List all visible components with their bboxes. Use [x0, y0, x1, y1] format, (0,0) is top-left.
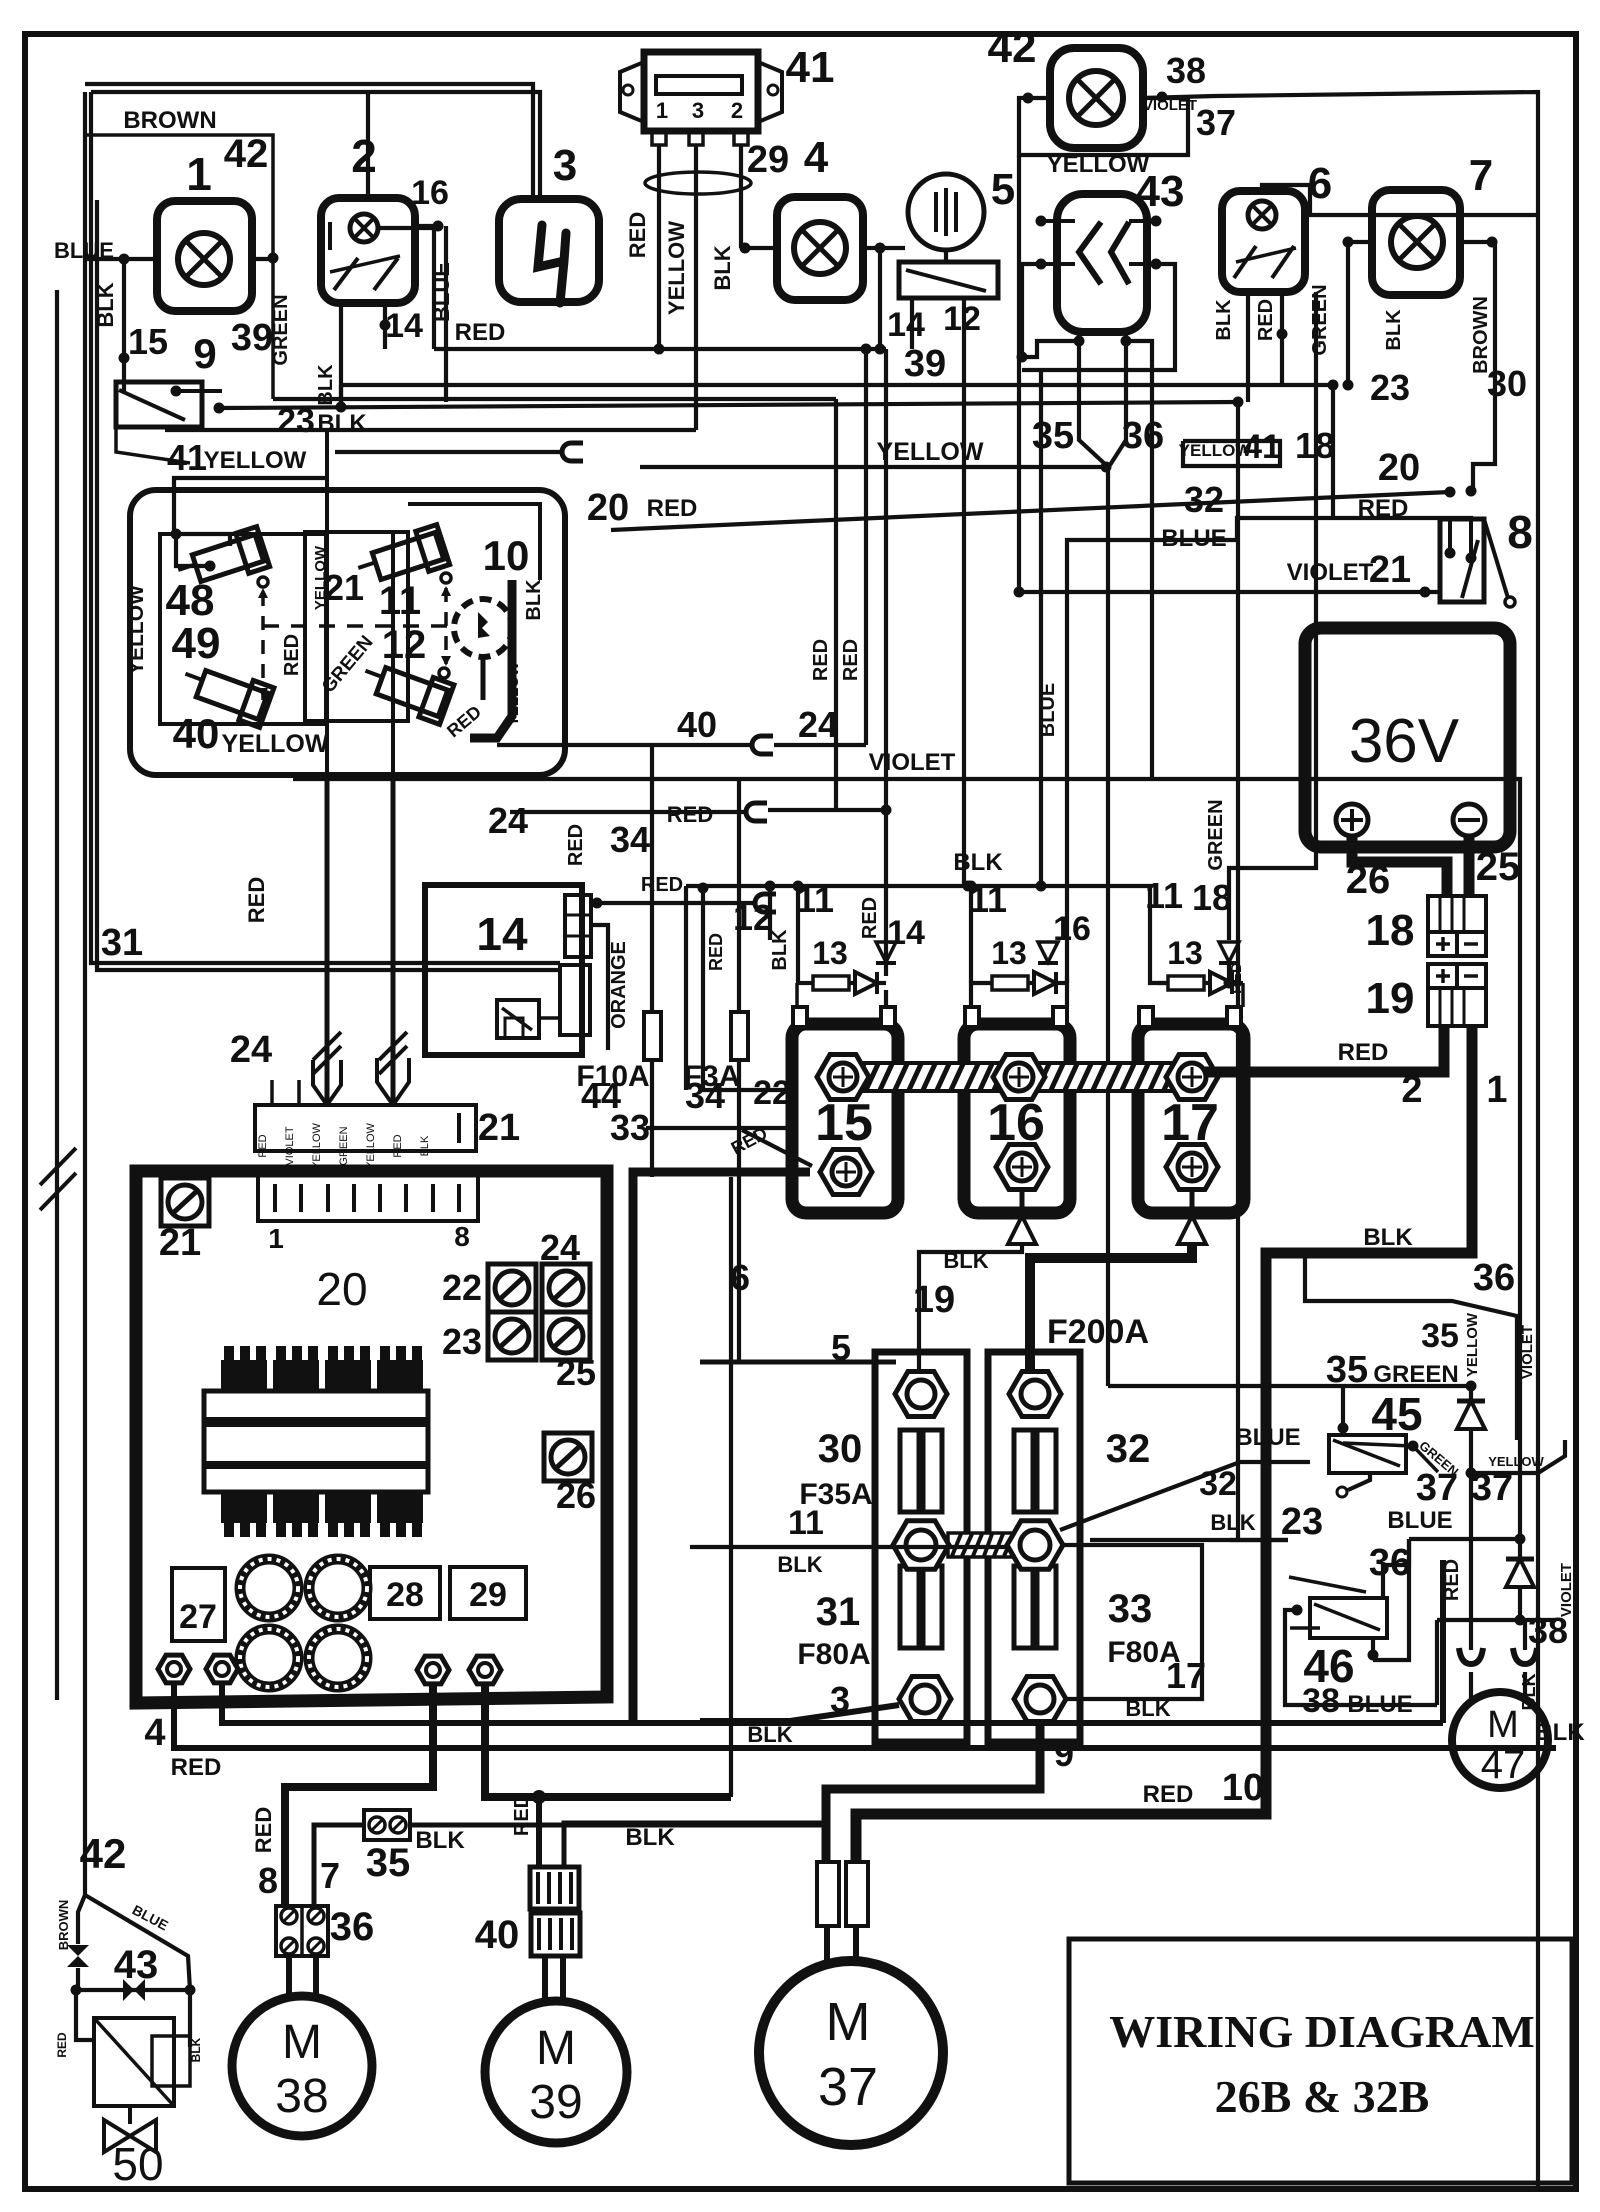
switch 9: [116, 382, 202, 427]
svg-text:7: 7: [1469, 151, 1493, 200]
wire BLK M39: [564, 1823, 826, 1867]
wire lamp42 loop: [1019, 98, 1188, 155]
inner box middle: [305, 532, 408, 721]
break slashes: [313, 1032, 341, 1060]
wire lamp6 top: [1262, 185, 1538, 215]
svg-text:35: 35: [366, 1841, 411, 1885]
svg-text:41: 41: [167, 437, 207, 478]
inner box right top line: [408, 504, 540, 580]
diode below 16: [1020, 1190, 1025, 1217]
title box: [1069, 1939, 1572, 2183]
svg-text:25: 25: [556, 1352, 596, 1393]
lamp 7: [1372, 190, 1460, 295]
wire BLUE right: [1409, 1537, 1520, 1541]
motor 39: [485, 2001, 627, 2143]
relay 45: [1329, 1435, 1406, 1473]
svg-text:BLK: BLK: [523, 579, 545, 621]
svg-text:39: 39: [529, 2076, 582, 2129]
svg-text:45: 45: [1371, 1388, 1422, 1440]
svg-text:ORANGE: ORANGE: [608, 941, 630, 1029]
wire 15 down from lamp1: [122, 259, 126, 391]
svg-text:BROWN: BROWN: [123, 107, 216, 134]
svg-text:YELLOW: YELLOW: [1179, 441, 1253, 460]
hour meter 41: [644, 52, 758, 131]
svg-text:YELLOW: YELLOW: [1047, 151, 1150, 178]
svg-text:23: 23: [1281, 1501, 1323, 1543]
wire orange from 14: [591, 925, 608, 1050]
resistor 13 row2: [971, 983, 992, 1007]
M37 fuse right: [846, 1862, 868, 1926]
wires fuses to M37: [824, 1926, 830, 1962]
wire 39 horizontal: [341, 383, 1333, 387]
wire 23 right: [1230, 1538, 1288, 1542]
wire 35 left to 36: [314, 1825, 364, 1906]
svg-text:38: 38: [1302, 1682, 1340, 1720]
svg-text:YELLOW: YELLOW: [125, 585, 148, 675]
svg-text:36: 36: [1369, 1542, 1411, 1584]
wire 23 BLK mid: [1090, 1538, 1288, 1542]
svg-text:RED: RED: [392, 1134, 404, 1157]
svg-text:BLK: BLK: [419, 1135, 431, 1156]
svg-text:9: 9: [193, 330, 216, 377]
fuse 32: [1014, 1430, 1056, 1512]
svg-text:RED: RED: [1441, 1559, 1463, 1601]
svg-text:29: 29: [747, 139, 789, 181]
wire 32 BLUE right: [1067, 518, 1473, 1007]
svg-text:BLK: BLK: [1125, 1696, 1170, 1721]
wire left x57: [55, 290, 59, 1700]
svg-text:YELLOW: YELLOW: [664, 221, 689, 315]
wire yellow41 right box: [1183, 441, 1280, 466]
svg-text:18: 18: [1366, 906, 1415, 955]
svg-text:8: 8: [1507, 506, 1533, 558]
svg-text:28: 28: [386, 1576, 424, 1614]
contactor hex nuts: [817, 1055, 869, 1100]
svg-text:RED: RED: [859, 897, 881, 939]
svg-text:1: 1: [656, 98, 668, 123]
svg-text:31: 31: [816, 1590, 861, 1634]
wire 32 BLUE diagonal: [1060, 1462, 1310, 1530]
resistor 13 row3: [1241, 983, 1245, 1007]
svg-text:BLK: BLK: [777, 1552, 822, 1577]
wire lamp7 left: [1348, 242, 1372, 385]
svg-text:14: 14: [385, 307, 423, 345]
svg-text:14: 14: [887, 306, 925, 344]
wire stud7 BLK: [222, 1685, 1443, 1723]
box14 right terminals: [565, 895, 591, 957]
svg-text:RED: RED: [171, 1754, 222, 1781]
wire RED long y349: [434, 347, 886, 351]
svg-text:WIRING DIAGRAM: WIRING DIAGRAM: [1109, 2006, 1535, 2057]
wire pair into box 3: [85, 84, 533, 199]
wire lamp2 bottom 14: [383, 303, 387, 349]
svg-text:RED: RED: [706, 933, 726, 971]
relay 46 left pin: [1292, 1605, 1303, 1616]
wire BROWN loop top-left: [85, 135, 273, 399]
lamp 4: [777, 197, 863, 300]
svg-text:M: M: [282, 2016, 322, 2069]
wire lamp1 left BLUE: [85, 257, 157, 261]
wire 41 pin3 YELLOW down: [694, 145, 698, 430]
wire switch12 down: [910, 298, 914, 349]
svg-text:39: 39: [231, 317, 273, 359]
svg-text:37: 37: [1416, 1467, 1458, 1509]
studs bottom: [158, 1655, 190, 1683]
contactor 15: [792, 1024, 898, 1213]
wire 42 down: [1017, 155, 1021, 592]
box 3: [499, 199, 599, 302]
svg-text:YELLOW: YELLOW: [222, 730, 329, 758]
switch 48: [173, 527, 270, 594]
wire lamp1 right to BROWN vertical: [252, 257, 273, 261]
svg-text:47: 47: [1481, 1743, 1526, 1787]
svg-text:24: 24: [798, 704, 838, 745]
svg-text:RED: RED: [511, 1794, 533, 1836]
wire lamp6 bottoms: [1246, 292, 1250, 402]
svg-text:38: 38: [275, 2070, 328, 2123]
wire stud485 down: [485, 1686, 731, 1797]
svg-text:7: 7: [320, 1855, 340, 1896]
svg-text:42: 42: [224, 132, 269, 176]
svg-text:11: 11: [379, 579, 421, 623]
svg-text:BLK: BLK: [317, 410, 367, 437]
svg-text:16: 16: [411, 174, 449, 212]
svg-text:BLK: BLK: [625, 1824, 675, 1851]
svg-text:13: 13: [812, 935, 848, 971]
svg-text:43: 43: [1136, 167, 1185, 216]
fuse block 32/33: [988, 1352, 1080, 1742]
cable ellipse 29: [645, 172, 751, 194]
wire 23 BLK horizontal: [219, 402, 1238, 408]
svg-text:40: 40: [677, 704, 717, 745]
switch 12 box: [899, 262, 998, 298]
svg-text:10: 10: [483, 532, 530, 579]
wire 39 links: [339, 385, 343, 407]
relay 43: [1057, 194, 1147, 332]
svg-text:42: 42: [988, 23, 1037, 72]
wire lamp7 right BROWN: [1460, 242, 1495, 491]
switch 12 lower: [357, 655, 454, 725]
svg-text:38: 38: [1528, 1610, 1568, 1651]
svg-text:11: 11: [1145, 875, 1183, 916]
svg-text:23: 23: [1370, 367, 1410, 408]
svg-text:21: 21: [1369, 549, 1411, 591]
svg-text:32: 32: [1199, 1465, 1237, 1503]
svg-text:2: 2: [1401, 1069, 1422, 1111]
svg-text:43: 43: [114, 1943, 159, 1987]
battery plus terminal: [1336, 804, 1368, 836]
svg-text:37: 37: [1471, 1467, 1513, 1509]
svg-text:GREEN: GREEN: [1205, 799, 1227, 870]
svg-text:37: 37: [818, 2057, 878, 2117]
svg-text:2: 2: [351, 130, 377, 182]
svg-text:26: 26: [1346, 858, 1391, 902]
wire RED down-left: [76, 1990, 94, 2040]
svg-text:VIOLET: VIOLET: [1558, 1563, 1575, 1617]
wire VIOLET 21: [1019, 590, 1440, 594]
verticals above contactors: [796, 886, 800, 983]
boxes 27 28 29: [172, 1568, 225, 1641]
switch 8: [1440, 519, 1484, 602]
connector 40: [530, 1867, 579, 1909]
wire lamp4 left: [741, 246, 777, 250]
wire stud4 RED: [174, 1685, 1556, 1748]
wire BLK right side: [188, 1990, 192, 2047]
fuse hexes: [895, 1372, 947, 1417]
svg-text:14: 14: [476, 908, 528, 960]
wire into hex30 top: [919, 1244, 1022, 1394]
svg-text:24: 24: [488, 800, 528, 841]
svg-text:32: 32: [1106, 1427, 1151, 1471]
svg-text:BLK: BLK: [710, 245, 735, 290]
wire 43 horizontal: [76, 1988, 190, 1992]
svg-text:35: 35: [1421, 1317, 1459, 1355]
svg-text:GREEN: GREEN: [1309, 284, 1331, 355]
svg-text:RED: RED: [1255, 299, 1277, 341]
wire 36 zigzag to relay46: [1383, 1539, 1409, 1600]
box 14: [425, 885, 582, 1055]
valve 50: [128, 2106, 132, 2124]
svg-text:F80A: F80A: [797, 1638, 870, 1671]
switch 11: [353, 525, 450, 592]
svg-text:RED: RED: [244, 877, 269, 923]
svg-text:21: 21: [159, 1222, 201, 1264]
relay 43 terminals: [1041, 219, 1075, 223]
hatch bus 30-32: [948, 1533, 1012, 1557]
thick wire 9: [826, 1725, 1040, 1864]
svg-text:14: 14: [887, 914, 925, 952]
svg-text:BLK: BLK: [415, 1827, 465, 1854]
svg-text:33: 33: [1108, 1587, 1153, 1631]
svg-text:3: 3: [830, 1679, 850, 1720]
svg-text:BLUE: BLUE: [1347, 1691, 1412, 1718]
terminal strip 1-8: [258, 1174, 478, 1221]
wire 35 GREEN: [1108, 1384, 1471, 1388]
svg-text:YELLOW: YELLOW: [311, 1122, 323, 1168]
screw 26: [544, 1433, 592, 1481]
svg-text:17: 17: [1166, 1655, 1206, 1696]
wire 22 vertical: [703, 888, 790, 1090]
svg-text:36: 36: [1473, 1257, 1515, 1299]
forks M47: [1469, 1620, 1473, 1650]
svg-text:8: 8: [454, 1221, 470, 1252]
svg-text:35: 35: [1326, 1349, 1368, 1391]
svg-text:GREEN: GREEN: [338, 1126, 350, 1165]
svg-text:30: 30: [1487, 363, 1527, 404]
svg-text:YELLOW: YELLOW: [365, 1122, 377, 1168]
connector 36: [276, 1906, 328, 1956]
connector 21 strip: [255, 1105, 476, 1151]
fuse block 30/31: [875, 1352, 967, 1742]
svg-text:41: 41: [786, 43, 835, 92]
svg-text:24: 24: [540, 1227, 580, 1268]
svg-text:VIOLET: VIOLET: [1143, 97, 1197, 114]
fuse F10A: [644, 1012, 661, 1060]
svg-text:33: 33: [610, 1107, 650, 1148]
wire 44 vertical: [650, 745, 654, 1177]
svg-text:RED: RED: [455, 319, 506, 346]
svg-text:RED: RED: [840, 639, 862, 681]
svg-text:RED: RED: [810, 639, 832, 681]
lamp 42 top: [1050, 48, 1143, 148]
svg-text:22: 22: [753, 1074, 791, 1112]
valve bowtie on 42 wire: [78, 1895, 85, 1944]
contactor 16: [964, 1024, 1070, 1213]
V splits into strip: [313, 1060, 327, 1105]
svg-text:BLK: BLK: [953, 849, 1003, 876]
lamp 1: [157, 201, 252, 311]
svg-text:RED: RED: [251, 1807, 276, 1853]
svg-text:GREEN: GREEN: [270, 294, 292, 365]
svg-text:3: 3: [692, 98, 704, 123]
turn-signal box outer: [130, 490, 565, 775]
svg-text:3: 3: [553, 141, 577, 190]
svg-text:9: 9: [1054, 1733, 1074, 1774]
svg-text:48: 48: [166, 576, 215, 625]
connector 19: [1428, 964, 1457, 988]
svg-text:RED: RED: [667, 802, 713, 827]
svg-text:BLK: BLK: [1383, 309, 1405, 351]
screw 22 24 23 25: [488, 1264, 536, 1312]
svg-text:23: 23: [277, 402, 315, 440]
wires 36 to M38: [286, 1956, 292, 1996]
svg-text:29: 29: [469, 1576, 507, 1614]
wire 41 pin2 BLK down: [739, 145, 743, 248]
svg-text:RED: RED: [1338, 1039, 1389, 1066]
svg-text:M: M: [1487, 1704, 1519, 1746]
fuse 31: [900, 1566, 942, 1648]
wire yellow y430: [165, 428, 696, 432]
wire violet x1152 down: [1150, 357, 1154, 779]
inner box left: [160, 534, 326, 724]
svg-text:4: 4: [144, 1712, 165, 1754]
svg-text:1: 1: [268, 1223, 284, 1254]
svg-text:41: 41: [1243, 428, 1281, 466]
svg-text:4: 4: [804, 133, 829, 182]
wire 11 BLK y1547: [690, 1545, 1007, 1549]
battery 36V: [1305, 628, 1510, 847]
svg-text:21: 21: [324, 567, 364, 608]
thick RED wire 2: [1205, 1026, 1444, 1072]
relay 43 lower loop wires: [1022, 332, 1079, 357]
svg-text:VIOLET: VIOLET: [1287, 559, 1374, 586]
wire yellow from diode: [1471, 1440, 1565, 1473]
connector 18: [1428, 896, 1486, 932]
svg-text:21: 21: [478, 1107, 520, 1149]
fuse F3A: [731, 1012, 748, 1060]
wire 34 vertical: [737, 779, 741, 1362]
svg-text:RED: RED: [565, 824, 587, 866]
wire 20 RED right: [611, 492, 1450, 530]
svg-text:RED: RED: [281, 634, 303, 676]
diagonal BLUE wire: [85, 1895, 190, 1990]
svg-text:26: 26: [556, 1475, 596, 1516]
wires below box to connector 21: [325, 774, 330, 1105]
svg-text:5: 5: [831, 1327, 851, 1368]
svg-text:RED: RED: [647, 495, 698, 522]
svg-text:12: 12: [733, 897, 773, 938]
wire yellow y467: [640, 465, 1106, 469]
svg-text:16: 16: [1053, 910, 1091, 948]
svg-text:15: 15: [128, 321, 168, 362]
wire 5 into block30: [700, 1360, 896, 1365]
svg-text:RED: RED: [55, 2032, 69, 2058]
svg-text:37: 37: [1196, 102, 1236, 143]
svg-text:YELLOW: YELLOW: [877, 438, 984, 466]
svg-text:BLUE: BLUE: [1037, 683, 1059, 737]
svg-text:38: 38: [1166, 50, 1206, 91]
wire stud433 to 36 connector: [285, 1686, 433, 1906]
hook path from 10: [470, 580, 512, 738]
toroids: [240, 1559, 298, 1617]
wire y399 GREEN: [273, 397, 836, 401]
heatsink: [204, 1391, 428, 1492]
wire thick 15 bottom to left: [633, 1172, 810, 1723]
svg-text:M: M: [826, 1992, 871, 2052]
svg-text:31: 31: [101, 922, 143, 964]
svg-text:13: 13: [991, 935, 1027, 971]
svg-text:40: 40: [173, 710, 220, 757]
svg-text:BROWN: BROWN: [56, 1900, 71, 1951]
wire 6 vertical: [729, 1177, 733, 1797]
contactor 17: [1138, 1024, 1244, 1213]
wire 23 long vertical: [1236, 402, 1240, 1540]
svg-text:15: 15: [815, 1094, 873, 1152]
svg-text:VIOLET: VIOLET: [1519, 1325, 1536, 1379]
thick wire into hex32 top F200A: [1030, 1244, 1192, 1394]
battery minus terminal: [1453, 804, 1485, 836]
svg-text:50: 50: [112, 2138, 163, 2190]
svg-text:F200A: F200A: [1047, 1313, 1149, 1351]
bus bar hatched: [845, 1063, 1195, 1091]
svg-text:26B & 32B: 26B & 32B: [1215, 2071, 1430, 2122]
switch 40 lower-left: [177, 658, 274, 728]
wire VIOLET long: [293, 779, 1520, 1539]
thick wire 25: [1464, 836, 1475, 896]
connector 35: [364, 1810, 410, 1840]
svg-text:BLK: BLK: [1363, 1224, 1413, 1251]
svg-text:24: 24: [230, 1029, 272, 1071]
svg-text:BLUE: BLUE: [1387, 1507, 1452, 1534]
svg-text:RED: RED: [641, 874, 683, 896]
BLK bus y886: [686, 886, 1168, 983]
svg-text:22: 22: [442, 1267, 482, 1308]
svg-text:40: 40: [475, 1913, 520, 1957]
wire 38 VIOLET right: [1143, 92, 1538, 2186]
svg-text:39: 39: [904, 343, 946, 385]
fuse 30: [900, 1430, 942, 1512]
wires 35 36 merge from 43: [1079, 341, 1106, 465]
svg-text:27: 27: [179, 1598, 217, 1636]
svg-text:20: 20: [316, 1263, 367, 1315]
svg-text:YELLOW: YELLOW: [204, 447, 307, 474]
solenoid box 50: [94, 2018, 174, 2106]
svg-text:11: 11: [788, 1504, 824, 1542]
svg-text:BLUE: BLUE: [1161, 525, 1226, 552]
svg-text:36: 36: [1122, 415, 1164, 457]
svg-text:BLUE: BLUE: [1235, 1424, 1300, 1451]
fuse 33: [1014, 1566, 1056, 1648]
wire lamp2 right 16 BLUE: [378, 226, 438, 230]
svg-text:1: 1: [1486, 1069, 1507, 1111]
controller 20 box: [136, 1171, 607, 1703]
svg-text:11: 11: [796, 879, 834, 920]
horn 5: [908, 174, 984, 250]
svg-text:25: 25: [1476, 845, 1521, 889]
svg-text:RED: RED: [257, 1134, 269, 1157]
svg-text:2: 2: [731, 98, 743, 123]
svg-text:RED: RED: [625, 212, 650, 258]
